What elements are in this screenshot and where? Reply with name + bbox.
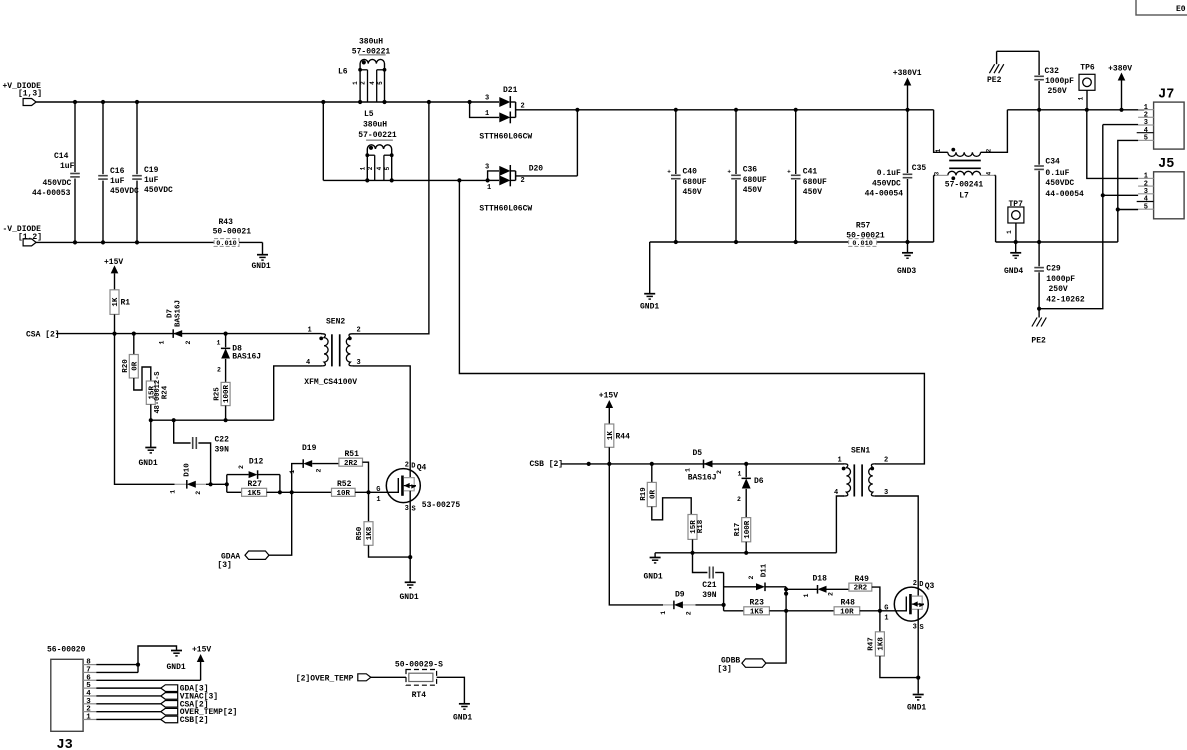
svg-text:C21: C21 <box>702 581 717 590</box>
wire R19 jog to R18 <box>652 498 691 520</box>
svg-text:GND1: GND1 <box>453 714 472 723</box>
wire SEN1 pin3 to Q3 drain <box>875 496 918 596</box>
mosfet Q4 <box>376 461 460 513</box>
svg-text:2: 2 <box>828 592 835 596</box>
resistor R24 <box>146 371 169 413</box>
node CSA label <box>26 331 60 340</box>
svg-text:C35: C35 <box>912 164 927 173</box>
svg-text:+380V: +380V <box>1108 65 1132 74</box>
junction <box>1014 240 1042 244</box>
wire L7 primary out <box>981 110 1008 153</box>
svg-text:C16: C16 <box>110 167 125 176</box>
diode D6 <box>737 464 764 518</box>
capacitor C34 <box>1034 110 1084 242</box>
svg-text:42-10262: 42-10262 <box>1046 295 1085 304</box>
svg-text:BAS16J: BAS16J <box>232 353 261 362</box>
power +380V1 <box>893 69 922 110</box>
svg-text:4: 4 <box>986 171 993 175</box>
svg-text:GND1: GND1 <box>400 593 419 602</box>
svg-text:D: D <box>919 581 923 589</box>
junction <box>457 178 461 182</box>
svg-text:1: 1 <box>485 110 489 118</box>
svg-text:5: 5 <box>1144 135 1148 143</box>
svg-text:1K8: 1K8 <box>878 637 886 651</box>
svg-text:R47: R47 <box>868 637 876 651</box>
svg-text:TP7: TP7 <box>1009 200 1024 209</box>
svg-text:C19: C19 <box>144 166 159 175</box>
wire R20 jog to R24 <box>134 367 151 390</box>
node CSB label <box>530 460 564 469</box>
svg-text:250V: 250V <box>1048 87 1067 96</box>
svg-text:5: 5 <box>86 682 91 690</box>
connector J3 pin 5 stub <box>83 682 96 690</box>
svg-text:R44: R44 <box>616 433 631 442</box>
svg-text:57-00241: 57-00241 <box>945 181 984 190</box>
ground GND1 <box>644 553 663 582</box>
capacitor C14 <box>32 102 80 242</box>
thermistor RT4 <box>395 661 443 700</box>
wire R44 to CSB <box>608 447 610 464</box>
svg-text:0R: 0R <box>131 361 139 371</box>
diode D11 <box>724 563 787 591</box>
svg-text:BAS16J: BAS16J <box>688 474 717 483</box>
node OVER_TEMP[2] tag <box>96 708 237 717</box>
svg-text:10R: 10R <box>337 490 351 498</box>
svg-text:C41: C41 <box>803 168 818 177</box>
diode D18 <box>786 575 834 598</box>
svg-text:2: 2 <box>716 470 723 474</box>
svg-text:L6: L6 <box>338 68 348 77</box>
svg-text:S: S <box>412 505 416 513</box>
svg-text:1uF: 1uF <box>144 176 159 185</box>
svg-text:R25: R25 <box>214 387 222 401</box>
svg-text:450VDC: 450VDC <box>1045 179 1074 188</box>
svg-text:5: 5 <box>377 81 384 85</box>
junction <box>575 108 579 112</box>
inductor L6 <box>338 38 390 103</box>
junction <box>1101 193 1105 197</box>
svg-text:2: 2 <box>185 340 192 344</box>
svg-text:1: 1 <box>359 166 366 170</box>
svg-text:6: 6 <box>86 674 91 682</box>
wire D10 out <box>206 483 227 485</box>
svg-text:D19: D19 <box>302 444 317 453</box>
svg-text:1000pF: 1000pF <box>1045 77 1074 86</box>
svg-text:D: D <box>411 463 415 471</box>
svg-text:1000pF: 1000pF <box>1046 275 1075 284</box>
wire CSA to SEN2 pin1 <box>308 327 312 335</box>
wire OVER_TEMP to RT4 <box>371 676 406 678</box>
svg-text:4: 4 <box>86 690 91 698</box>
svg-text:GND1: GND1 <box>252 262 271 271</box>
svg-text:+: + <box>727 169 731 176</box>
junction <box>408 555 412 559</box>
svg-text:450VDC: 450VDC <box>872 179 901 188</box>
connector J3 body <box>51 659 83 750</box>
svg-text:1: 1 <box>838 457 842 465</box>
svg-text:1uF: 1uF <box>60 162 75 171</box>
svg-text:R27: R27 <box>248 480 263 489</box>
junction <box>1037 307 1041 311</box>
svg-text:50-00021: 50-00021 <box>213 228 252 237</box>
wire bus to L5 branch <box>323 102 367 180</box>
diode D10 <box>169 463 206 495</box>
wire J3 pin6 to +15V <box>96 662 200 681</box>
ground GND3 <box>897 242 916 276</box>
svg-text:2: 2 <box>686 611 693 615</box>
svg-text:39N: 39N <box>215 445 230 454</box>
svg-text:+15V: +15V <box>104 258 123 267</box>
svg-text:1: 1 <box>376 496 380 504</box>
svg-text:450V: 450V <box>683 188 702 197</box>
chassis ground PE2 bottom <box>1031 309 1046 346</box>
junction <box>486 178 490 182</box>
svg-text:+15V: +15V <box>599 392 618 401</box>
junction <box>112 332 227 336</box>
svg-text:1K: 1K <box>607 431 615 441</box>
svg-text:R24: R24 <box>162 385 170 399</box>
svg-text:3: 3 <box>485 164 489 172</box>
node +V_DIODE tag <box>23 99 36 106</box>
svg-text:XFM_CS4100V: XFM_CS4100V <box>304 378 357 387</box>
connector J5 pin 3 stub <box>1138 188 1154 196</box>
wire SEN2 pin4 <box>274 366 322 420</box>
svg-text:D18: D18 <box>813 575 828 584</box>
wire RT4 to ground <box>437 677 465 704</box>
diode D7 <box>159 300 192 344</box>
svg-text:44-00054: 44-00054 <box>865 190 904 199</box>
wire CSB down to D9 <box>609 464 663 605</box>
svg-text:2R2: 2R2 <box>854 585 868 593</box>
wire TP6 net to J5 pin1 <box>1087 110 1138 179</box>
wire SEN2 pin3 to Q4 drain <box>353 366 410 478</box>
svg-text:44-00054: 44-00054 <box>1045 190 1084 199</box>
svg-text:C29: C29 <box>1046 264 1061 273</box>
svg-text:R48: R48 <box>841 598 856 607</box>
resistor R48 <box>834 598 860 616</box>
diode D9 <box>660 591 696 616</box>
svg-text:L5: L5 <box>364 110 374 119</box>
wire R25 to row <box>225 406 227 421</box>
svg-text:100R: 100R <box>744 520 752 539</box>
diode D20 <box>479 164 543 214</box>
svg-text:2: 2 <box>86 706 91 714</box>
resistor R17 <box>734 518 752 542</box>
connector J3 pin 8 stub <box>83 659 96 667</box>
svg-text:2: 2 <box>238 465 245 469</box>
junction <box>358 100 387 104</box>
junction <box>587 462 749 466</box>
svg-text:R1: R1 <box>121 299 131 308</box>
wire rail to GND1 <box>649 242 651 294</box>
ground GND1 <box>453 704 472 723</box>
svg-text:L7: L7 <box>959 192 969 201</box>
node CSB[2] tag <box>96 716 208 725</box>
svg-text:1: 1 <box>1006 230 1013 234</box>
svg-text:D6: D6 <box>754 477 764 486</box>
svg-text:R57: R57 <box>856 221 871 230</box>
connector J7 pin 1 stub <box>1138 104 1154 112</box>
svg-text:56-00020: 56-00020 <box>47 646 86 655</box>
svg-text:[3]: [3] <box>217 561 231 570</box>
svg-text:R20: R20 <box>122 359 130 373</box>
wire -V_DIODE rail <box>36 241 214 243</box>
wire R24 to row <box>150 404 152 420</box>
svg-text:2: 2 <box>913 580 917 588</box>
connector J3 pin 3 stub <box>83 698 96 706</box>
svg-text:STTH60L06CW: STTH60L06CW <box>479 204 532 213</box>
junction <box>321 100 325 104</box>
svg-text:1: 1 <box>738 471 742 478</box>
svg-text:[2]OVER_TEMP: [2]OVER_TEMP <box>296 674 354 683</box>
svg-text:1: 1 <box>1077 96 1084 100</box>
svg-text:450VDC: 450VDC <box>144 186 173 195</box>
resistor R27 <box>227 480 267 498</box>
svg-text:3: 3 <box>405 505 409 513</box>
svg-text:GND4: GND4 <box>1004 267 1023 276</box>
wire gnd row SEN1 <box>655 552 836 554</box>
power +15V <box>599 392 618 425</box>
power +15V <box>192 646 211 663</box>
connector J3 pin 1 stub <box>83 713 96 721</box>
svg-text:3: 3 <box>86 698 91 706</box>
diode D8 <box>217 334 262 383</box>
diode D19 <box>289 444 323 492</box>
node CSA[2] tag <box>96 700 208 709</box>
svg-text:2: 2 <box>405 461 409 469</box>
svg-text:1K5: 1K5 <box>247 490 261 498</box>
wire secondary left to rail <box>934 175 935 242</box>
test point TP6 <box>1077 63 1095 109</box>
capacitor C35 <box>865 110 927 242</box>
svg-text:C40: C40 <box>683 168 698 177</box>
svg-text:G: G <box>376 486 380 494</box>
svg-text:10R: 10R <box>840 608 854 616</box>
resistor R51 <box>312 450 362 468</box>
wire R1 to CSA <box>114 314 116 333</box>
junction <box>209 482 229 486</box>
svg-text:GND1: GND1 <box>640 303 659 312</box>
svg-text:R43: R43 <box>219 218 234 227</box>
resistor R44 <box>605 424 630 447</box>
wire R52 to gate <box>355 491 386 493</box>
junction <box>365 178 394 182</box>
capacitor C29 <box>1034 242 1085 309</box>
connector J7 pin 2 stub <box>1138 112 1154 120</box>
junction <box>1037 108 1124 112</box>
junction <box>674 240 910 244</box>
svg-text:R17: R17 <box>734 523 742 537</box>
svg-text:1: 1 <box>217 339 221 346</box>
wire CSA row <box>56 333 322 335</box>
svg-text:1uF: 1uF <box>110 177 125 186</box>
power +380V <box>1108 65 1132 110</box>
svg-text:R52: R52 <box>337 480 352 489</box>
svg-text:57-00221: 57-00221 <box>358 131 397 140</box>
svg-text:Q4: Q4 <box>417 464 427 473</box>
svg-text:E0: E0 <box>1176 5 1186 14</box>
connector J3 pin 2 stub <box>83 706 96 714</box>
capacitor C41 <box>787 110 827 242</box>
wire SEN1 pin4 <box>836 496 844 553</box>
svg-text:380uH: 380uH <box>363 121 387 130</box>
node GDAA tag <box>217 551 269 570</box>
svg-text:1: 1 <box>308 327 312 335</box>
svg-text:+380V1: +380V1 <box>893 69 922 78</box>
resistor R19 <box>640 464 657 507</box>
inductor L5 <box>358 110 397 180</box>
connector J3 label <box>47 646 86 655</box>
svg-text:1: 1 <box>159 340 166 344</box>
svg-text:CSA [2]: CSA [2] <box>26 331 60 340</box>
svg-text:C36: C36 <box>743 166 758 175</box>
svg-text:1: 1 <box>352 81 359 85</box>
capacitor C36 <box>727 110 767 242</box>
wire R18 to row <box>692 539 694 552</box>
svg-text:CSB[2]: CSB[2] <box>180 716 209 725</box>
junction <box>149 418 228 422</box>
connector J5 pin 4 stub <box>1137 196 1154 204</box>
svg-text:5: 5 <box>1144 203 1148 211</box>
svg-text:GND1: GND1 <box>139 459 158 468</box>
svg-text:1: 1 <box>685 468 692 472</box>
svg-text:BAS16J: BAS16J <box>175 300 183 327</box>
connector J7 pin 4 stub <box>1137 127 1154 135</box>
wire GDAA to gate node <box>269 492 292 555</box>
resistor R50 <box>356 492 410 557</box>
svg-text:380uH: 380uH <box>359 38 383 47</box>
connector J5 pin 1 stub <box>1138 173 1154 181</box>
svg-text:0.1uF: 0.1uF <box>1045 169 1069 178</box>
svg-text:2: 2 <box>367 166 374 170</box>
svg-text:2: 2 <box>360 81 367 85</box>
ground GND1 <box>252 255 271 271</box>
wire GDBB to gate node <box>766 611 786 663</box>
junction <box>73 100 139 104</box>
wire ground rail left <box>650 241 934 243</box>
svg-text:2: 2 <box>217 367 221 374</box>
capacitor C32 <box>997 51 1075 110</box>
junction <box>1116 207 1120 211</box>
wire D21 out <box>516 109 578 111</box>
chassis ground PE2 top <box>987 51 1004 85</box>
wire L5 row <box>367 179 487 181</box>
node OVER_TEMP tag <box>296 674 371 684</box>
wire C29 to J pins 3 <box>1039 125 1103 309</box>
svg-text:1: 1 <box>803 593 810 597</box>
junction <box>278 490 294 494</box>
svg-text:PE2: PE2 <box>987 76 1002 85</box>
svg-text:250V: 250V <box>1049 285 1068 294</box>
wire R49 to gate <box>872 587 880 611</box>
wire D20 row to SEN1 pin2 <box>459 180 924 464</box>
svg-text:0.1uF: 0.1uF <box>877 169 901 178</box>
node -V_DIODE label <box>3 225 43 242</box>
transformer SEN1 <box>834 446 888 497</box>
ground GND1 <box>167 651 186 673</box>
wire D9 out <box>696 604 724 606</box>
connector J3 pin 6 stub <box>83 674 96 682</box>
connector J5 body <box>1154 157 1185 219</box>
svg-text:R18: R18 <box>697 519 705 533</box>
diode D21 <box>470 86 533 142</box>
capacitor C16 <box>98 102 139 242</box>
wire secondary right to rail <box>995 175 996 242</box>
svg-text:1: 1 <box>935 148 942 152</box>
svg-text:0.010: 0.010 <box>216 240 236 248</box>
svg-text:1: 1 <box>289 470 296 474</box>
svg-text:1: 1 <box>884 614 888 622</box>
svg-text:1: 1 <box>487 184 491 192</box>
svg-text:+15V: +15V <box>192 646 211 655</box>
wire D12/R27 right leg <box>267 475 292 493</box>
svg-text:7: 7 <box>86 666 91 674</box>
svg-text:R51: R51 <box>345 450 360 459</box>
junction <box>73 240 139 244</box>
svg-text:GND1: GND1 <box>644 573 663 582</box>
svg-text:J5: J5 <box>1158 157 1174 172</box>
title block corner <box>1136 0 1187 15</box>
svg-text:50-00029-S: 50-00029-S <box>395 661 443 670</box>
connector J7 pin 3 stub <box>1138 119 1154 127</box>
svg-text:D12: D12 <box>249 457 264 466</box>
resistor R57 <box>846 221 885 248</box>
svg-text:4: 4 <box>369 81 376 85</box>
test point TP7 <box>1006 200 1024 242</box>
diode D12 <box>227 457 280 479</box>
power +15V <box>104 258 123 290</box>
wire Q4 source down <box>409 491 411 583</box>
svg-text:2: 2 <box>316 468 323 472</box>
junction <box>427 100 472 104</box>
node +V_DIODE label <box>3 82 43 99</box>
svg-text:TP6: TP6 <box>1080 63 1095 72</box>
wire R51 to gate <box>363 462 369 492</box>
ground GND1 <box>139 420 158 468</box>
svg-text:C34: C34 <box>1045 157 1060 166</box>
wire J7 pin3 to J5 pin3 <box>1103 125 1138 196</box>
svg-text:R19: R19 <box>640 487 648 501</box>
connector J7 pin 5 stub <box>1138 135 1154 143</box>
svg-text:450VDC: 450VDC <box>110 187 139 196</box>
junction <box>722 603 726 607</box>
wire R17 to row <box>745 542 747 553</box>
svg-text:R49: R49 <box>855 575 870 584</box>
svg-text:CSB [2]: CSB [2] <box>530 460 564 469</box>
svg-text:450V: 450V <box>743 186 762 195</box>
svg-text:680UF: 680UF <box>743 176 767 185</box>
svg-text:RT4: RT4 <box>412 691 427 700</box>
svg-text:D20: D20 <box>529 165 544 174</box>
svg-text:SEN1: SEN1 <box>851 446 870 455</box>
wire bus to cap bank <box>577 109 933 111</box>
node VINAC[3] tag <box>96 693 218 702</box>
resistor R49 <box>827 575 872 593</box>
wire J7 pin5 / J5 pin5 to rail <box>1118 140 1138 242</box>
svg-text:J7: J7 <box>1158 88 1174 103</box>
wire Q3 source down <box>917 609 919 693</box>
node -V_DIODE tag <box>23 239 36 246</box>
junction <box>366 490 370 494</box>
svg-text:100R: 100R <box>223 385 231 404</box>
svg-text:+: + <box>667 169 671 176</box>
node GDBB tag <box>717 657 766 675</box>
svg-text:D21: D21 <box>503 86 518 95</box>
resistor R20 <box>122 334 139 378</box>
svg-text:GND1: GND1 <box>907 704 926 713</box>
wire gnd row <box>151 419 274 421</box>
svg-text:39N: 39N <box>702 591 717 600</box>
